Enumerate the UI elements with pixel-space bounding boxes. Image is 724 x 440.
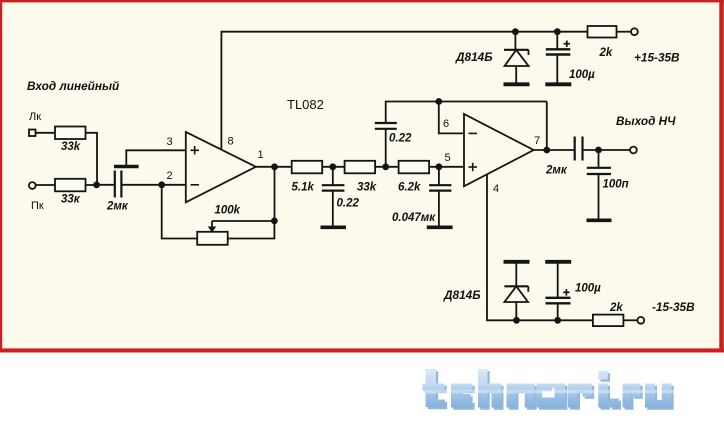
zener diode D1 Д814Б [504,32,529,83]
wire R8 to minus terminal [623,319,637,321]
svg-text:2мк: 2мк [545,165,568,177]
svg-text:1: 1 [258,149,264,161]
svg-text:100µ: 100µ [569,69,595,81]
svg-text:2k: 2k [599,47,613,59]
wire junction to C1 [97,184,115,186]
svg-text:Д814Б: Д814Б [455,50,493,64]
wire node D down to C4 [438,167,440,185]
wire R6 to node D [429,166,464,168]
svg-text:+15-35В: +15-35В [634,51,680,65]
capacitor C8 100µ electrolytic [546,263,571,320]
svg-text:33к: 33к [61,194,81,206]
junction inverting input node [158,181,165,188]
zener diode D2 Д814Б [504,263,528,320]
wire R2 to input junction [86,184,97,186]
wire op-amp pin 3 to ground [126,150,186,165]
svg-text:TL082: TL082 [287,97,324,112]
wire output to feedback junction [274,167,276,221]
wire pin 8 to positive rail [221,32,587,150]
resistor R5 33k [345,161,376,174]
wire pin 4 to negative rail [487,175,593,321]
svg-text:2k: 2k [609,302,623,314]
svg-text:5: 5 [445,152,451,164]
input terminal Пк [29,182,36,189]
capacitor C3 0.22 feedback [375,123,397,129]
resistor R7 2k [588,26,617,38]
ground below C7 [545,82,571,86]
op-amp U1.2 TL082 [464,114,534,186]
wire R1 to input junction [86,133,98,185]
junction output node U1.1 [271,163,278,170]
junction negative rail at D2 [513,317,520,324]
junction node C [382,163,389,170]
wire inverting node to op-amp pin 2 [162,184,186,186]
resistor R1 33k [55,127,86,140]
svg-text:6: 6 [443,118,449,130]
capacitor C6 100п [587,168,611,174]
capacitor C4 0.047мк [429,185,451,190]
svg-text:Вход линейный: Вход линейный [27,79,119,93]
resistor R2 33к [55,179,86,192]
wire R4 to node B [322,166,344,168]
svg-text:Д814Б: Д814Б [443,288,481,302]
ground below C2 [321,226,347,230]
svg-text:Лк: Лк [29,111,41,123]
junction positive rail at D1 [512,28,519,35]
junction negative rail at C8 [554,317,561,324]
junction feedback top node [435,98,442,105]
resistor R6 6.2k [399,161,430,174]
wire feedback junction to wiper [212,220,274,222]
terminal -15-35В [637,317,644,324]
svg-text:7: 7 [534,135,540,147]
junction feedback node [271,218,278,225]
ground below C4 [427,226,453,230]
svg-text:Выход НЧ: Выход НЧ [616,114,676,128]
wire R7 to plus terminal [617,31,632,33]
svg-text:3: 3 [167,136,173,148]
capacitor C1 2мк [115,171,122,198]
ground below D1 [504,82,530,86]
wire C2 to ground [332,191,334,226]
svg-text:100п: 100п [603,179,629,191]
junction output pin 7 node [543,147,550,154]
wire node B down to C2 [332,167,334,185]
op-amp U1.1 TL082 [186,132,256,202]
wire output pin 1 [256,166,292,168]
junction node D pin 5 [436,163,443,170]
resistor R4 5.1k [292,161,323,174]
wire output pin 7 [534,149,575,151]
junction output node [595,147,602,154]
capacitor C5 2мк [575,137,583,161]
wire C4 to ground [438,191,440,226]
wire C5 to output node [583,149,631,151]
ground above D2 [504,260,530,264]
wire R5 to node C [375,166,399,168]
svg-text:2: 2 [167,170,173,182]
wire node C up to C3 [385,129,387,167]
ground at pin 3 [114,165,139,168]
svg-text:0.047мк: 0.047мк [392,212,436,224]
capacitor C2 0.22 [322,185,345,190]
svg-text:4: 4 [493,183,499,195]
capacitor C7 100µ electrolytic [546,32,571,83]
wire pot right terminal to feedback junction [228,221,275,239]
wire C3 to feedback top rail [386,102,547,124]
junction node B [329,163,336,170]
ground below C6 [587,219,612,223]
junction positive rail at C7 [554,28,561,35]
svg-text:0.22: 0.22 [337,198,360,210]
wire C1 to inverting node [121,184,161,186]
output terminal Выход НЧ [630,147,637,154]
wire C6 to ground [598,174,600,219]
wire Пк terminal to R2 [36,184,55,186]
svg-text:Пк: Пк [31,200,44,212]
svg-text:33k: 33k [357,182,377,194]
svg-text:0.22: 0.22 [389,133,412,145]
junction input node [93,181,100,188]
potentiometer R3 100k [197,221,228,245]
wire output node down to C6 [598,150,600,167]
wire feedback top to pin 6 [439,102,464,134]
svg-text:6.2k: 6.2k [398,182,421,194]
svg-text:2мк: 2мк [106,201,129,213]
resistor R8 2k [593,315,624,327]
svg-text:8: 8 [228,136,234,148]
wire Лк terminal to R1 [36,132,56,134]
svg-text:100µ: 100µ [575,283,601,295]
svg-text:5.1k: 5.1k [292,182,315,194]
wire feedback right side down to output [546,102,548,151]
terminal +15-35В [631,28,638,35]
svg-text:33k: 33k [61,141,81,153]
svg-text:100k: 100k [215,205,241,217]
ground above C8 [545,260,571,264]
input terminal Лк [29,130,36,137]
svg-text:-15-35В: -15-35В [652,300,695,314]
wire pot left terminal to inverting node [162,185,198,239]
watermark tehnari.ru [422,369,678,410]
